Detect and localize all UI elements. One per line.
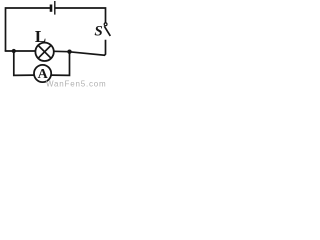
svg-text:WanFen5.com: WanFen5.com (46, 80, 107, 89)
label S (94, 24, 102, 40)
lamp L (35, 43, 53, 61)
wire: lamp to node N2 (54, 50, 70, 52)
node N2 (right junction dot) (67, 50, 71, 54)
wire: left side down from battery loop to lamp row (6, 49, 36, 52)
switch S1 pivot node (104, 23, 107, 26)
switch S1 blade (104, 26, 110, 36)
label L (35, 27, 46, 46)
wire: top-left horizontal run to battery (6, 8, 51, 51)
watermark (46, 80, 107, 89)
wire: battery to top-right corner and down to switch (56, 8, 106, 23)
wire: node N1 drop to ammeter row (14, 51, 34, 75)
node N1 (left junction dot) (12, 49, 16, 53)
wire: switch to bottom-right corner and along bottom to node N2 (70, 40, 106, 55)
wire: ammeter to riser up to node N2 (51, 52, 70, 76)
ammeter A (34, 65, 51, 82)
svg-text:S: S (94, 24, 102, 40)
battery cell B1 (51, 1, 55, 15)
